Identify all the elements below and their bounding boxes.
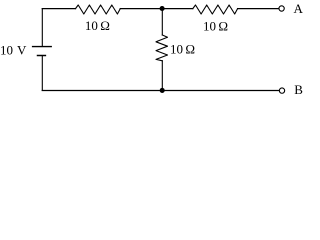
svg-text:B: B [294,82,303,97]
wire top right [238,8,279,10]
node junction bottom [160,88,165,93]
resistor R3 10 ohm (middle vertical) [156,35,168,61]
svg-text:Ω: Ω [218,18,228,33]
svg-text:10: 10 [0,43,13,58]
svg-text:10: 10 [170,42,183,57]
terminal A open circle [279,6,284,11]
svg-text:V: V [17,43,27,58]
wire top-left horizontal [42,8,75,10]
resistor R2 10 ohm (top right) [193,5,238,14]
wire top middle [120,8,193,10]
wire bottom horizontal [42,90,279,92]
battery V1 positive plate [33,46,52,48]
terminal B open circle [279,88,284,93]
svg-text:10: 10 [203,18,216,33]
node junction top [160,6,165,11]
svg-text:A: A [294,1,304,16]
svg-text:Ω: Ω [100,18,110,33]
resistor R1 10 ohm (top left) [76,5,121,14]
wire middle vertical upper (junction down to R3) [161,9,163,35]
wire left vertical upper (top wire down to battery +) [41,9,43,46]
svg-text:Ω: Ω [185,42,195,57]
wire left vertical lower (battery - down to bottom wire) [41,56,43,90]
battery V1 negative plate [38,55,46,57]
wire middle vertical lower (R3 down to bottom junction) [161,61,163,91]
svg-text:10: 10 [85,18,98,33]
